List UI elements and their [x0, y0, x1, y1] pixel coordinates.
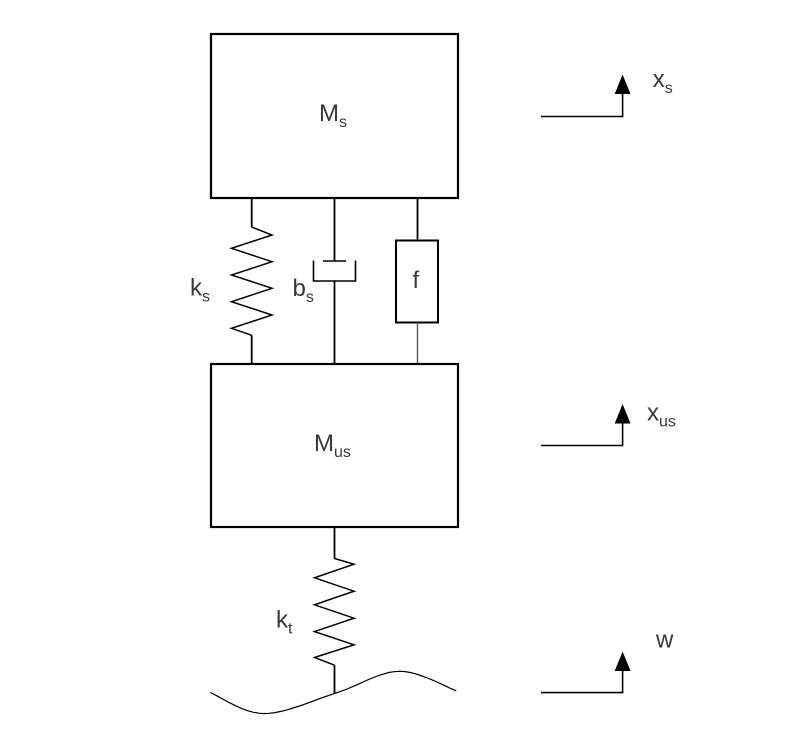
wire from spring k_s to M_us: [251, 335, 253, 364]
mass M_us box: [211, 364, 458, 527]
spring k_s: [232, 227, 273, 335]
damper b_s: [314, 261, 356, 282]
mass M_s box: [211, 34, 458, 198]
svg-text:f: f: [413, 267, 420, 294]
wire from spring k_t to road: [334, 665, 336, 693]
svg-text:bs: bs: [293, 275, 314, 306]
spring k_t: [315, 559, 355, 666]
arrow x_s: [541, 76, 630, 117]
arrow x_us: [541, 406, 630, 446]
wire from M_s to damper piston: [334, 198, 336, 261]
svg-text:kt: kt: [276, 607, 293, 638]
wire from M_s to actuator f: [417, 198, 419, 241]
wire from actuator f to M_us: [417, 323, 419, 365]
arrow w: [541, 653, 630, 693]
road surface wave: [210, 671, 456, 713]
svg-text:w: w: [655, 627, 674, 654]
svg-text:ks: ks: [190, 275, 210, 306]
wire from M_us to spring k_t: [334, 527, 336, 559]
svg-text:xs: xs: [653, 66, 673, 97]
actuator f box: [396, 241, 438, 323]
svg-text:xus: xus: [647, 400, 676, 431]
wire from M_s to spring k_s: [251, 198, 253, 227]
wire from damper b_s to M_us: [334, 281, 336, 364]
